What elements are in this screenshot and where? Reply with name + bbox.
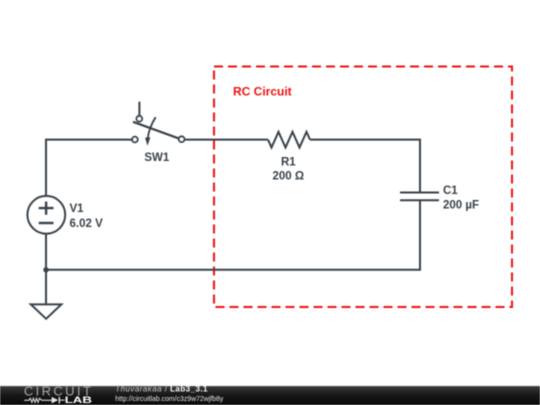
- logo diode bar: [58, 397, 60, 404]
- switch lever: [133, 122, 178, 139]
- svg-text:http://circuitlab.com/c3z9w72w: http://circuitlab.com/c3z9w72wjfb8y: [115, 394, 223, 403]
- capacitor C1 plates: [400, 193, 439, 201]
- svg-text:R1: R1: [281, 157, 296, 169]
- resistor R1 zigzag: [268, 132, 310, 148]
- logo wire to LAB: [59, 399, 65, 401]
- voltage source V1 circle: [27, 196, 65, 234]
- V1 minus sign: [39, 222, 54, 224]
- svg-text:C1: C1: [443, 185, 458, 197]
- svg-text:RC Circuit: RC Circuit: [233, 85, 292, 99]
- wire: switch right terminal to resistor R1: [185, 139, 269, 141]
- wire: node down to ground: [45, 270, 47, 305]
- wire: V1 bottom to node: [45, 235, 47, 270]
- switch motion arrow arc: [148, 117, 156, 139]
- annotation box "RC Circuit" (red dashed rectangle): [214, 67, 512, 308]
- switch left terminal circle: [132, 137, 138, 143]
- switch arrowhead: [145, 137, 150, 145]
- svg-text:6.02 V: 6.02 V: [70, 218, 104, 230]
- svg-text:SW1: SW1: [144, 152, 170, 164]
- footer black bar: [0, 386, 540, 405]
- logo resistor zigzag and diode: [24, 398, 51, 402]
- switch SW1: top stub wire: [138, 102, 140, 116]
- switch top terminal circle: [136, 116, 142, 122]
- node junction dot: [43, 267, 48, 272]
- wire: capacitor bottom down and left to node: [46, 201, 420, 270]
- svg-text:LAB: LAB: [65, 396, 92, 405]
- wire: resistor to capacitor top: [310, 140, 420, 192]
- switch right terminal circle: [179, 136, 185, 142]
- logo diode triangle: [52, 397, 59, 404]
- ground symbol: [31, 304, 62, 318]
- svg-text:200 Ω: 200 Ω: [272, 171, 304, 183]
- svg-text:200 µF: 200 µF: [443, 199, 479, 211]
- wire: top-left horizontal + left vertical down to V1: [46, 140, 132, 196]
- V1 plus sign: [39, 202, 54, 215]
- svg-text:V1: V1: [70, 203, 85, 215]
- svg-text:Thuvarakaa / Lab3_3.1: Thuvarakaa / Lab3_3.1: [115, 384, 208, 393]
